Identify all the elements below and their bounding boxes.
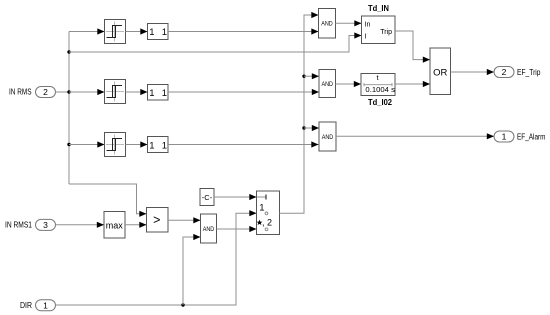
wire riser to AND3 upper input [304, 127, 319, 129]
svg-text:EF_Trip: EF_Trip [517, 68, 541, 77]
Td_IN block [362, 16, 396, 44]
wire timer to OR lower input [395, 83, 430, 85]
wire relay R1 to unit block [126, 31, 148, 33]
svg-text:0.1004 s: 0.1004 s [365, 85, 395, 94]
input port DIR (1) [20, 300, 56, 311]
relay block R1 [105, 20, 126, 44]
constant block -C- [200, 189, 214, 206]
input port IN RMS (2) [9, 87, 56, 98]
wire max to comparator lower input [125, 224, 147, 226]
wire unit block Z2 to AND2 lower input [168, 91, 319, 93]
unit delay block Z2 (1 1) [148, 85, 169, 101]
unit delay block Z1 (1 1) [148, 24, 169, 40]
timer block Td_I02 [361, 73, 395, 96]
svg-text:In: In [365, 21, 371, 28]
svg-text:1: 1 [43, 300, 48, 310]
wire bus to relay R3 [69, 144, 105, 146]
svg-text:Td_IN: Td_IN [368, 3, 389, 13]
AND gate U3 [319, 122, 336, 151]
wire AND4 to switch input 3 [217, 228, 257, 230]
wire AND1 to Td_IN In input [336, 22, 362, 24]
relay block R2 [105, 80, 126, 104]
output port EF_Trip (2) [494, 67, 541, 78]
junction dot (304,128) [302, 126, 305, 129]
svg-text:I: I [365, 33, 367, 40]
relay block R3 [105, 133, 126, 157]
unit delay block Z3 (1 1) [148, 137, 169, 153]
svg-text:AND: AND [203, 226, 215, 233]
svg-text:, 2: , 2 [262, 218, 272, 228]
wire switch output to AND risers [280, 15, 319, 213]
svg-text:2: 2 [502, 67, 507, 77]
wire unit block Z3 to AND3 lower input [168, 144, 319, 146]
AND gate U1 [319, 9, 336, 39]
input port IN RMS1 (3) [5, 219, 56, 230]
svg-text:DIR: DIR [20, 300, 32, 310]
wire relay R2 to unit block Z2 [126, 91, 148, 93]
svg-text:AND: AND [321, 81, 333, 88]
OR gate U5 [430, 48, 451, 95]
junction dot (69,92) [67, 90, 70, 93]
junction dot (183,305) [181, 303, 184, 306]
AND gate U2 [319, 70, 336, 98]
wire bus down to comparator top input [69, 184, 147, 214]
wire relay R3 to unit block Z3 [126, 144, 148, 146]
svg-text:max: max [106, 220, 124, 230]
svg-text:EF_Alarm: EF_Alarm [517, 133, 546, 142]
wire vertical bus x=69 [68, 32, 70, 185]
svg-text:-C-: -C- [202, 193, 213, 202]
svg-text:AND: AND [321, 21, 333, 28]
svg-text:1: 1 [149, 141, 154, 152]
comparator block > [147, 208, 169, 233]
junction dot (69,144) [67, 143, 70, 146]
wire DIR branch to AND4 lower input [183, 237, 201, 305]
wire IN RMS to main vertical bus [56, 91, 70, 93]
svg-text:Td_I02: Td_I02 [368, 97, 392, 107]
svg-text:1: 1 [162, 88, 167, 99]
max block [104, 212, 125, 239]
wire AND3 to EF_Alarm port [336, 135, 494, 137]
svg-text:OR: OR [433, 68, 447, 79]
wire riser to AND2 upper input [304, 75, 319, 77]
svg-text:1: 1 [259, 203, 264, 214]
multiport switch block [257, 191, 280, 235]
svg-text:>: > [153, 213, 160, 227]
wire constant to switch control input [214, 196, 257, 198]
wire AND2 to timer block [336, 83, 362, 85]
svg-text:2: 2 [43, 87, 48, 97]
wire IN RMS1 to max block [56, 224, 105, 226]
wire comparator to AND4 upper input [168, 219, 201, 221]
wire OR to EF_Trip port [451, 71, 495, 73]
svg-text:1: 1 [149, 27, 154, 38]
wire unit block Z1 to AND1 lower input [168, 31, 319, 33]
svg-text:Trip: Trip [380, 29, 392, 36]
output port EF_Alarm (1) [494, 131, 546, 142]
svg-text:3: 3 [43, 220, 48, 230]
svg-text:AND: AND [322, 134, 334, 141]
svg-text:IN RMS: IN RMS [9, 87, 32, 97]
wire DIR to switch input 2 [56, 213, 257, 305]
svg-text:1: 1 [502, 132, 507, 142]
svg-text:IN RMS1: IN RMS1 [5, 220, 32, 230]
wire bus to Td_IN I input (y=52 run) [69, 36, 362, 53]
AND gate U4 (directional) [201, 214, 217, 243]
svg-text:1: 1 [162, 141, 167, 152]
svg-text:1: 1 [149, 88, 154, 99]
svg-text:1: 1 [162, 27, 167, 38]
junction dot (304,76) [302, 75, 305, 78]
wire Td_IN Trip output to OR upper input [395, 31, 430, 60]
junction dot (69,52) [67, 50, 70, 53]
wire bus to relay R2 [69, 91, 105, 93]
wire bus to relay R1 [69, 31, 105, 33]
